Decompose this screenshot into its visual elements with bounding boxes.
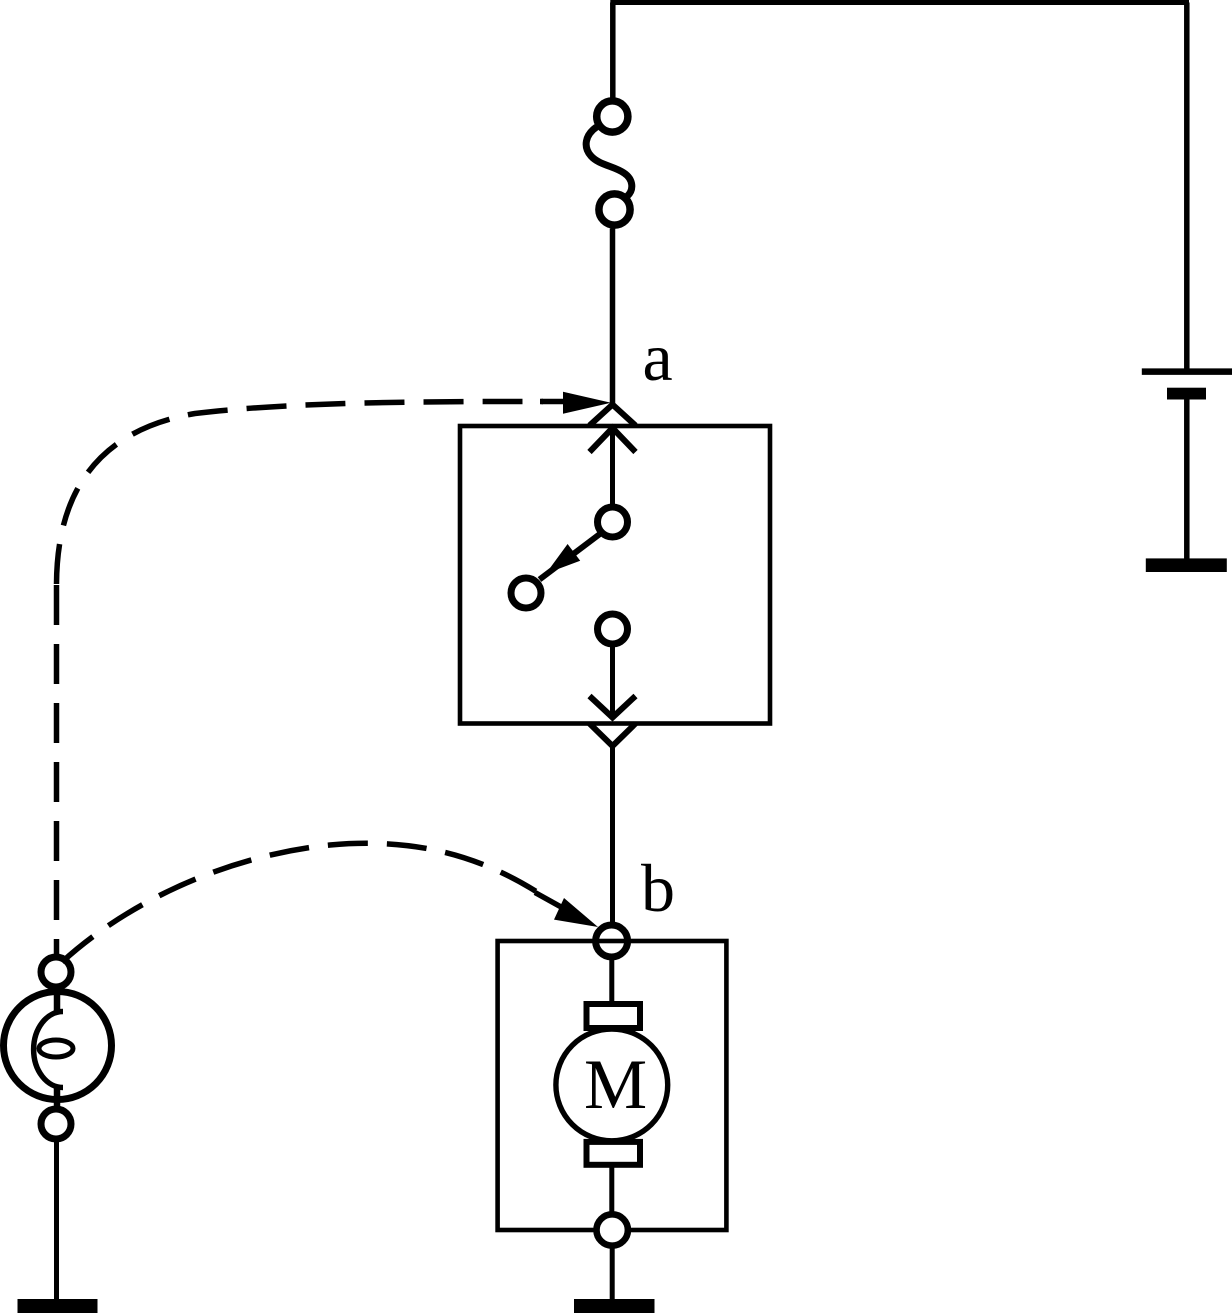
ground bar under motor: [574, 1299, 655, 1313]
fuse S-wire: [586, 127, 632, 197]
battery long plate (positive): [1142, 368, 1232, 375]
lamp circle: [4, 992, 112, 1100]
wire node b to brush: [609, 957, 614, 1003]
battery short plate (negative): [1167, 388, 1206, 400]
chevron inside switch box top: [590, 428, 636, 452]
fuse bottom circle: [599, 194, 630, 225]
node b circle: [596, 925, 628, 957]
fuse top circle: [597, 101, 628, 132]
arrow shaft solid at node a: [540, 399, 570, 405]
lamp filament loop: [39, 1040, 73, 1057]
motor circle: [556, 1029, 668, 1141]
ground bar under battery: [1146, 558, 1227, 572]
dashed arrow curve to node b: [62, 843, 548, 962]
chevron below switch box: [590, 724, 636, 747]
wire to ground (motor): [610, 1246, 615, 1301]
svg-text:b: b: [641, 850, 675, 926]
wire box to node b: [610, 744, 615, 923]
ground bar under lamp: [18, 1299, 98, 1313]
motor top brush: [587, 1004, 641, 1028]
lamp bottom terminal circle: [41, 1109, 71, 1139]
switch box: [460, 426, 770, 724]
motor bottom brush: [587, 1142, 641, 1165]
wire battery negative down: [1184, 400, 1190, 560]
switch bottom terminal circle: [598, 614, 628, 644]
switch top terminal circle: [598, 507, 628, 537]
wire top horizontal: [610, 0, 1189, 5]
chevron above switch box: [590, 405, 636, 426]
wire inside box top: [610, 430, 615, 506]
motor bottom node circle: [597, 1214, 628, 1245]
wire brush to bottom node: [609, 1167, 614, 1213]
lamp filament bottom lead: [54, 1085, 61, 1109]
wire inside box bottom: [610, 647, 615, 716]
wire right vertical to battery: [1184, 3, 1190, 369]
wire fuse to node a: [610, 229, 616, 406]
svg-text:a: a: [643, 319, 673, 395]
wire lamp to ground: [54, 1141, 59, 1301]
motor box: [498, 941, 727, 1230]
lamp filament coil arc: [34, 1012, 63, 1088]
lamp top terminal circle: [41, 957, 71, 987]
dashed arrow curve to node a: [54, 584, 60, 958]
wire from top corner down to fuse: [610, 3, 616, 99]
chevron inside switch box bottom: [590, 696, 636, 718]
lamp filament top lead: [54, 990, 61, 1014]
svg-text:M: M: [584, 1046, 647, 1124]
arrowhead at node b: [554, 898, 598, 927]
switch arm with arrowhead: [540, 534, 601, 580]
arrowhead at node a: [563, 392, 611, 414]
switch left terminal circle: [511, 578, 541, 608]
arrow shaft solid at node b: [535, 893, 562, 908]
